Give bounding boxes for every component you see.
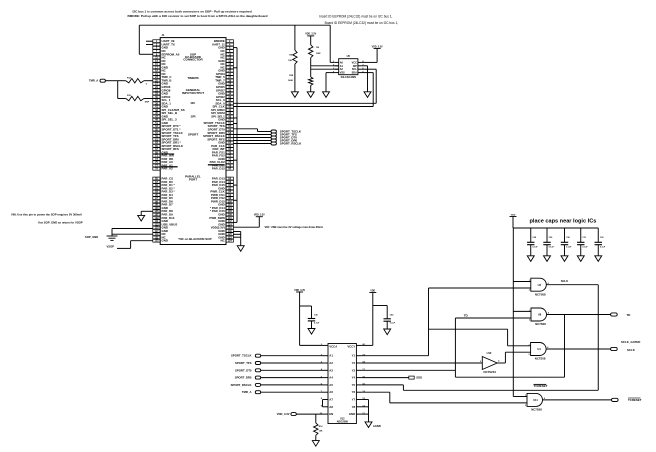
svg-text:SPORT: SPORT [188,132,199,136]
svg-text:Y6: Y6 [352,390,356,394]
svg-text:DNP: DNP [145,102,150,104]
svg-text:NC7S08: NC7S08 [535,292,546,296]
svg-text:ADG3308: ADG3308 [337,420,349,423]
svg-text:Y1: Y1 [352,354,356,358]
svg-text:0.1uF: 0.1uF [314,322,320,324]
svg-text:VDD_3.3V: VDD_3.3V [305,34,316,36]
svg-text:0.1uF: 0.1uF [549,246,555,248]
svg-text:A4: A4 [329,376,333,380]
svg-text:Y2: Y2 [352,361,356,365]
svg-text:NC7S08: NC7S08 [535,322,546,326]
svg-text:SPORT_TSCLK: SPORT_TSCLK [231,354,252,358]
svg-text:123: 123 [155,240,160,243]
svg-text:0.1uF: 0.1uF [566,246,572,248]
svg-text:SPORT_DR0: SPORT_DR0 [235,376,252,380]
svg-text:U8: U8 [538,313,542,317]
svg-text:VDD: VDD [511,214,516,216]
svg-text:SDA: SDA [352,72,357,75]
svg-text:AGND: AGND [373,424,381,428]
svg-text:VCCY: VCCY [347,345,355,349]
svg-text:TD: TD [627,313,631,317]
svg-text:VSS: VSS [340,72,345,75]
svg-text:BMODE: Pull up with a 10K resi: BMODE: Pull up with a 10K resistor to se… [128,14,268,18]
svg-text:Y3: Y3 [352,368,356,372]
svg-text:TMR_A: TMR_A [242,390,252,394]
svg-text:VCCA: VCCA [329,345,337,349]
svg-text:10K: 10K [288,60,292,62]
svg-text:Y8: Y8 [352,405,356,409]
svg-text:SCLK_GATED: SCLK_GATED [621,340,640,344]
svg-text:SOP_GND: SOP_GND [85,235,98,239]
svg-text:U4: U4 [537,347,541,351]
svg-text:A7: A7 [329,398,333,402]
svg-text:U10: U10 [487,351,492,355]
svg-text:SDO: SDO [416,376,422,380]
svg-text:NC7S08: NC7S08 [535,357,546,361]
svg-text:PAR_D12: PAR_D12 [212,167,225,171]
svg-text:0.1uF: 0.1uF [532,246,538,248]
svg-text:I2C bus 1 is common across bot: I2C bus 1 is common across both connecto… [133,10,252,14]
svg-text:TIMERS: TIMERS [187,76,198,80]
svg-text:U3: U3 [538,283,542,287]
svg-text:Board ID EEPROM (24LC32) must: Board ID EEPROM (24LC32) must be on I2C … [325,21,399,25]
svg-text:DNP: DNP [316,53,321,55]
svg-text:Y7: Y7 [352,398,356,402]
svg-text:Y4: Y4 [352,376,356,380]
svg-text:VDD_3.3V: VDD_3.3V [372,46,383,48]
svg-text:SCLK: SCLK [561,279,568,283]
svg-text:U5: U5 [347,54,351,58]
svg-text:U11: U11 [533,398,538,402]
svg-text:TMR_A: TMR_A [89,79,98,83]
svg-text:VDD_3.3V: VDD_3.3V [294,290,305,292]
svg-text:INPUT/OUTPUT: INPUT/OUTPUT [182,91,204,95]
svg-text:A6: A6 [329,390,333,394]
svg-text:SPORT_RSCLK: SPORT_RSCLK [231,383,252,387]
svg-text:0.1uF: 0.1uF [390,323,396,325]
svg-text:A3: A3 [329,368,333,372]
svg-text:I2C: I2C [191,101,197,105]
svg-text:SPORT_TFS: SPORT_TFS [235,361,252,365]
svg-text:A1: A1 [329,354,333,358]
svg-text:VIN: Use this pin to power the: VIN: Use this pin to power the SOP requi… [11,213,82,217]
svg-text:*NC on BLACKFIN SOP: *NC on BLACKFIN SOP [178,237,211,241]
svg-text:2: 2 [529,354,530,356]
svg-text:0.1uF: 0.1uF [582,246,588,248]
svg-text:0.1uF: 0.1uF [600,246,606,248]
svg-text:124: 124 [228,240,233,243]
svg-text:2: 2 [529,290,530,292]
svg-text:Y5: Y5 [352,383,356,387]
svg-text:NC7SZ04: NC7SZ04 [484,370,497,374]
svg-text:SPI: SPI [191,115,196,119]
svg-text:140K: 140K [288,79,293,82]
svg-text:2: 2 [529,319,530,321]
svg-text:A5: A5 [329,383,333,387]
svg-text:PORT: PORT [189,177,198,181]
svg-text:SPORT_DT0: SPORT_DT0 [235,368,252,372]
svg-text:SPORT_RSCLK: SPORT_RSCLK [280,142,302,146]
svg-text:NC7S08: NC7S08 [531,408,542,412]
svg-text:GND: GND [162,239,168,243]
svg-text:2: 2 [525,405,526,407]
svg-text:24LC32-I/MS: 24LC32-I/MS [341,75,357,79]
svg-text:VDD: VDD [370,290,375,292]
svg-text:SCLK: SCLK [627,348,636,352]
svg-text:EN: EN [329,412,333,416]
svg-text:Use SOP_GND as return for VSOP: Use SOP_GND as return for VSOP [38,221,83,225]
svg-text:VDD_3.3V: VDD_3.3V [277,412,290,416]
svg-text:VDD_3.3V: VDD_3.3V [254,215,265,217]
svg-text:TCRESET: TCRESET [628,398,642,402]
svg-text:CONNECTOR: CONNECTOR [183,58,203,62]
svg-text:place caps near logic ICs: place caps near logic ICs [530,219,597,225]
svg-text:GND: GND [349,412,355,416]
svg-text:Insert ID EEPROM (24LC32) must: Insert ID EEPROM (24LC32) must be on I2C… [319,15,392,19]
svg-text:A2: A2 [329,361,333,365]
svg-text:VSOP: VSOP [107,245,115,249]
svg-text:VIO: USB must be 3V voltage ma: VIO: USB must be 3V voltage max draw 30m… [265,225,323,229]
svg-text:10K: 10K [319,431,323,433]
svg-text:A8: A8 [329,405,333,409]
